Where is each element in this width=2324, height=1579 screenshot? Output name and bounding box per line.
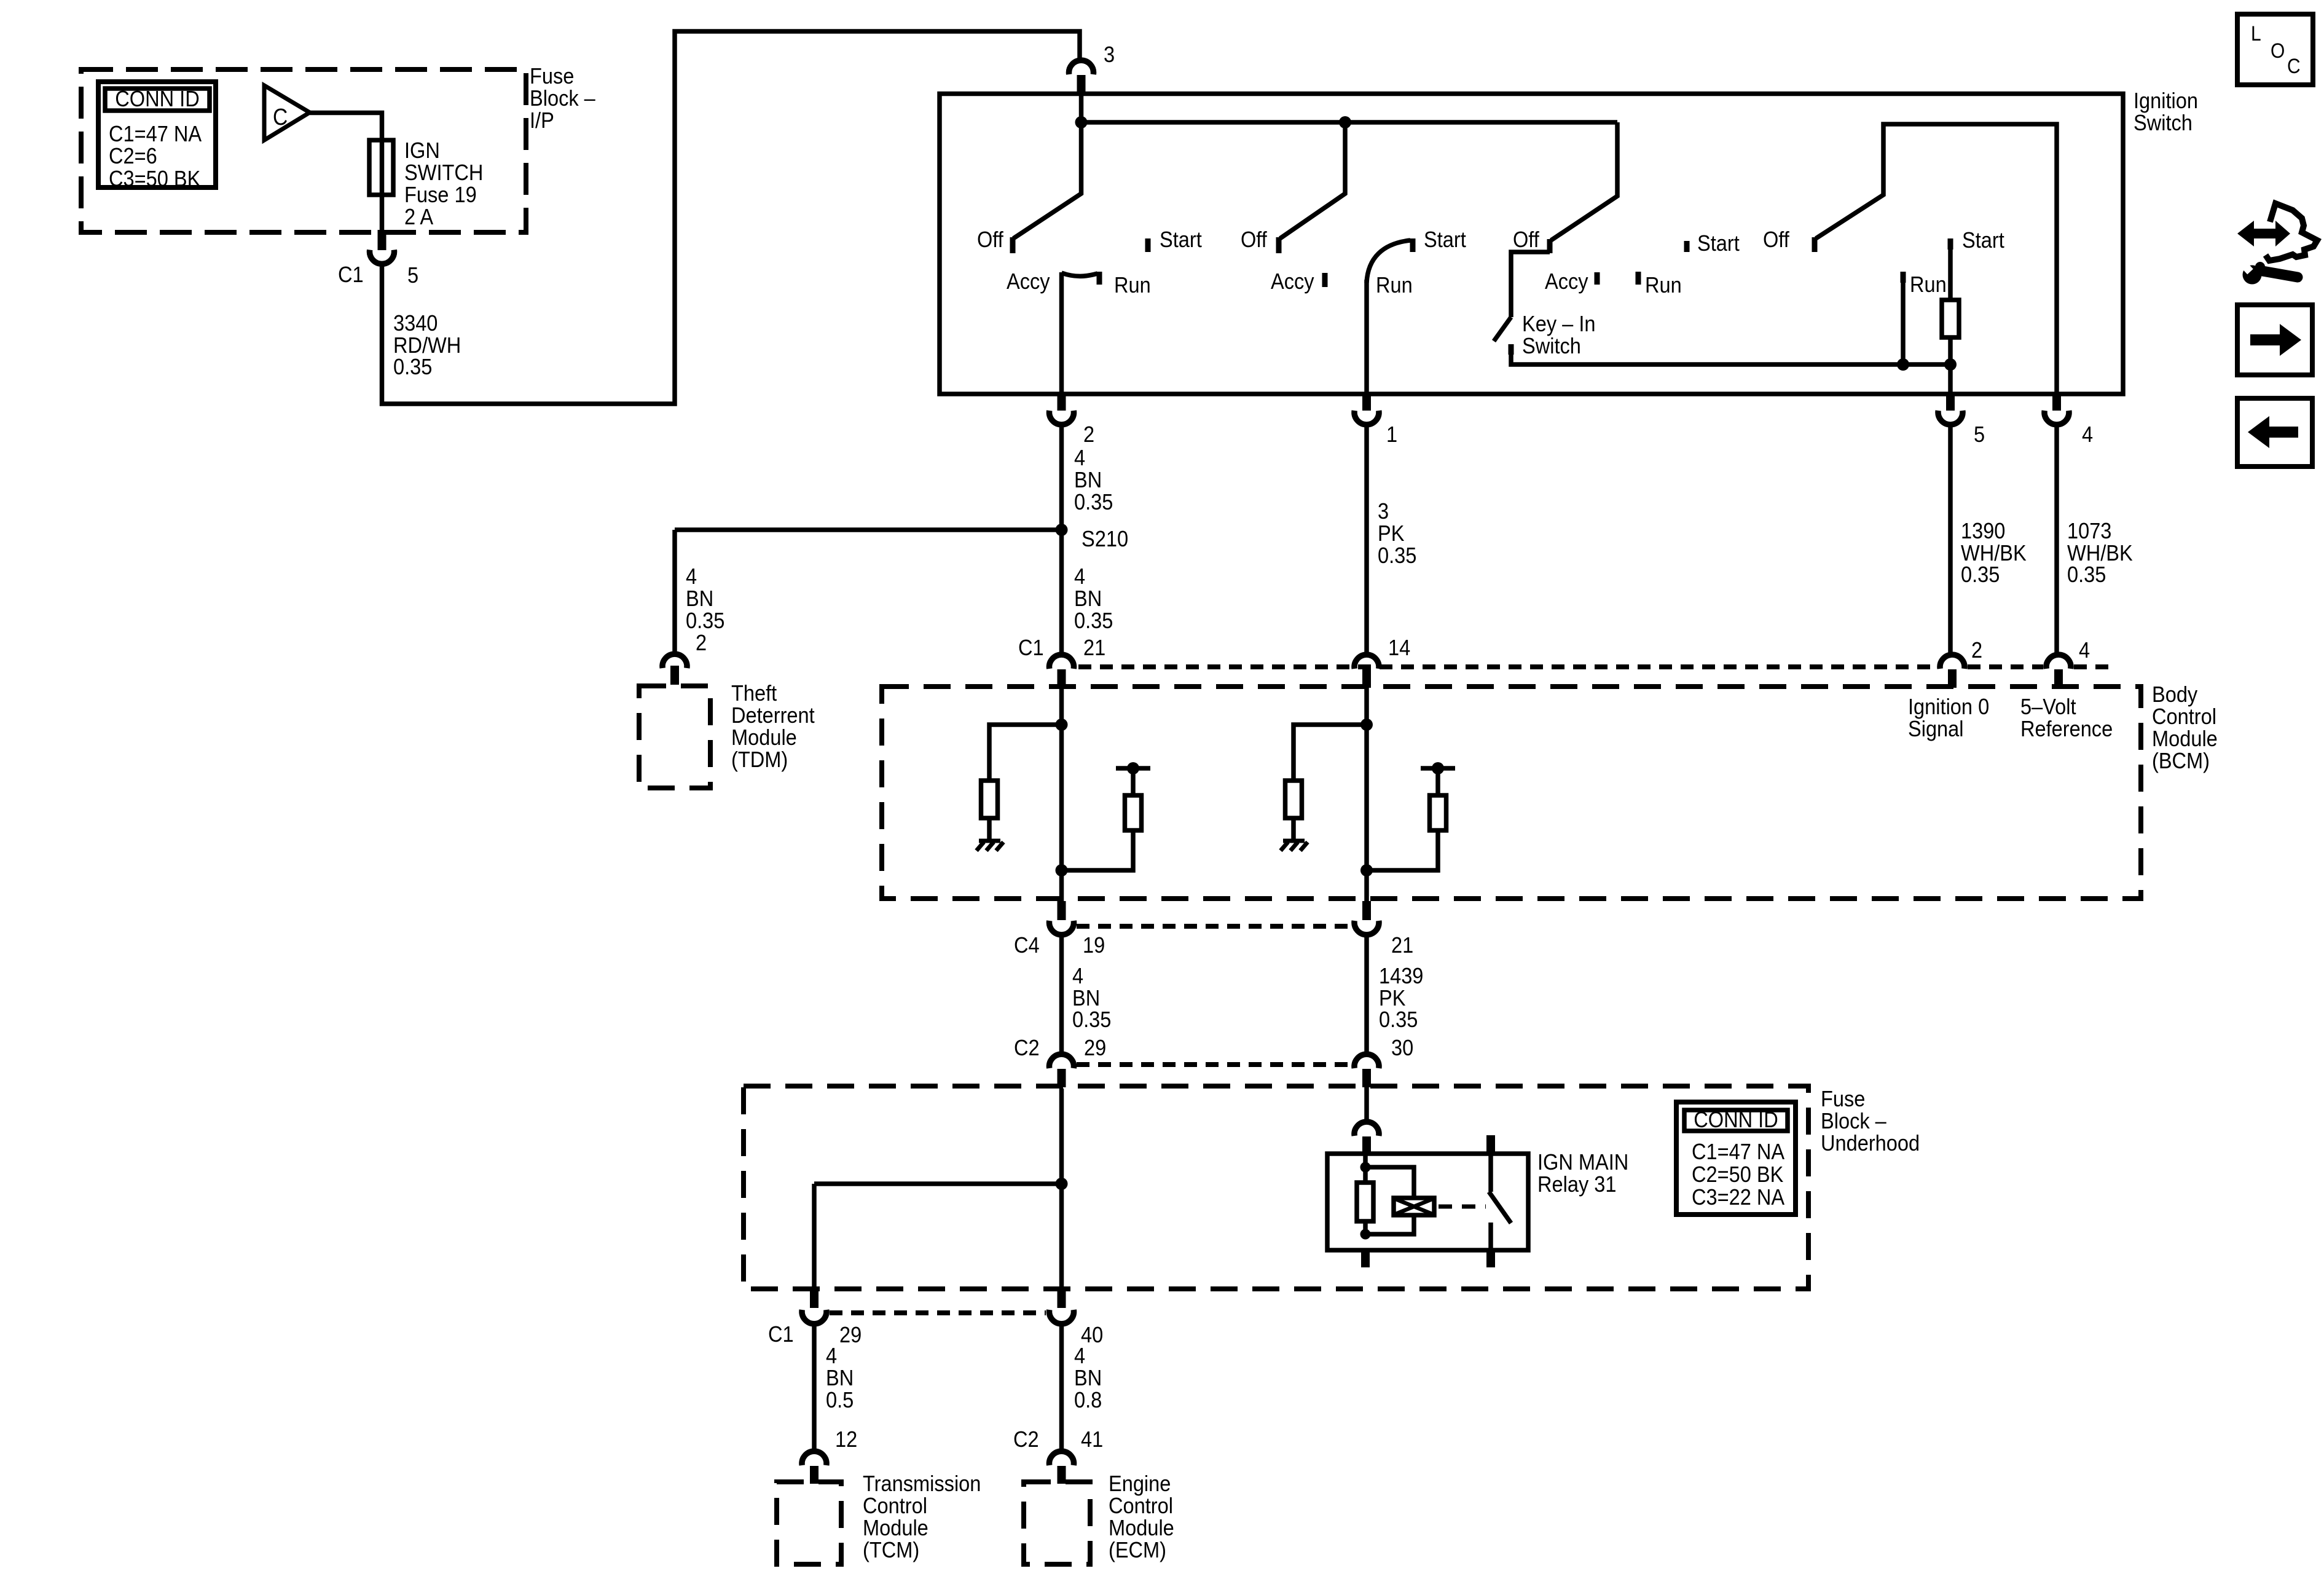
svg-text:Start: Start (1697, 230, 1740, 256)
svg-text:30: 30 (1391, 1035, 1413, 1060)
svg-text:4: 4 (2079, 637, 2090, 663)
svg-text:Switch: Switch (1522, 333, 1581, 358)
svg-text:5: 5 (1974, 422, 1985, 447)
svg-text:Module: Module (1109, 1515, 1174, 1540)
svg-text:29: 29 (839, 1322, 862, 1347)
svg-text:5: 5 (407, 262, 418, 288)
svg-text:4: 4 (1074, 1343, 1085, 1368)
svg-text:0.35: 0.35 (1961, 562, 2000, 587)
svg-text:Module: Module (863, 1515, 928, 1540)
svg-text:Module: Module (731, 725, 797, 750)
svg-text:Signal: Signal (1908, 716, 1964, 741)
svg-text:0.35: 0.35 (393, 354, 432, 379)
svg-text:BN: BN (1074, 1365, 1102, 1390)
svg-text:Module: Module (2152, 726, 2218, 751)
svg-text:Engine: Engine (1109, 1471, 1171, 1496)
svg-text:Control: Control (1109, 1493, 1173, 1518)
svg-text:Off: Off (977, 227, 1004, 252)
svg-text:0.35: 0.35 (686, 608, 724, 633)
svg-text:Underhood: Underhood (1821, 1130, 1920, 1156)
svg-text:(BCM): (BCM) (2152, 748, 2210, 773)
svg-text:Block –: Block – (1821, 1108, 1886, 1133)
svg-text:Run: Run (1114, 272, 1151, 297)
svg-text:Start: Start (1424, 227, 1466, 252)
svg-text:O: O (2271, 39, 2285, 63)
svg-text:BN: BN (1074, 586, 1102, 611)
svg-text:Relay 31: Relay 31 (1537, 1171, 1617, 1197)
svg-text:19: 19 (1083, 932, 1105, 958)
svg-text:Off: Off (1513, 227, 1540, 252)
svg-text:C1=47 NA: C1=47 NA (109, 121, 202, 146)
svg-text:4: 4 (2082, 422, 2093, 447)
svg-text:Body: Body (2152, 682, 2197, 707)
svg-text:Run: Run (1910, 272, 1947, 297)
svg-text:Block –: Block – (530, 85, 595, 111)
svg-text:C3=50 BK: C3=50 BK (109, 166, 200, 191)
svg-text:3: 3 (1104, 42, 1115, 67)
svg-text:Run: Run (1645, 272, 1682, 297)
svg-text:29: 29 (1084, 1035, 1106, 1060)
svg-text:Reference: Reference (2020, 716, 2113, 741)
svg-text:2: 2 (1083, 422, 1094, 447)
svg-text:14: 14 (1388, 635, 1410, 660)
svg-text:2 A: 2 A (404, 204, 433, 229)
svg-text:C: C (273, 104, 288, 130)
svg-text:Key – In: Key – In (1522, 311, 1596, 336)
svg-text:21: 21 (1083, 635, 1105, 660)
svg-text:CONN ID: CONN ID (115, 86, 200, 111)
svg-text:12: 12 (835, 1427, 857, 1452)
svg-text:S210: S210 (1082, 526, 1128, 551)
svg-text:Off: Off (1241, 227, 1268, 252)
svg-text:3: 3 (1378, 498, 1389, 524)
svg-text:Fuse 19: Fuse 19 (404, 182, 477, 207)
svg-text:L: L (2251, 22, 2261, 45)
svg-text:1439: 1439 (1379, 963, 1423, 988)
svg-text:2: 2 (696, 630, 707, 655)
svg-text:4: 4 (1074, 564, 1085, 589)
svg-text:C2=50 BK: C2=50 BK (1692, 1162, 1783, 1187)
svg-text:2: 2 (1971, 637, 1982, 663)
svg-text:PK: PK (1378, 521, 1404, 546)
svg-text:IGN MAIN: IGN MAIN (1537, 1149, 1628, 1175)
svg-text:Start: Start (1962, 227, 2004, 253)
svg-text:0.35: 0.35 (1379, 1007, 1418, 1032)
svg-text:0.5: 0.5 (826, 1387, 854, 1412)
svg-text:41: 41 (1081, 1427, 1103, 1452)
svg-text:C3=22 NA: C3=22 NA (1692, 1184, 1784, 1210)
svg-text:Transmission: Transmission (863, 1471, 981, 1496)
svg-text:C1: C1 (338, 262, 364, 287)
svg-text:Fuse: Fuse (530, 63, 574, 89)
svg-text:Off: Off (1763, 227, 1790, 252)
svg-text:4: 4 (686, 564, 697, 589)
svg-text:Control: Control (863, 1493, 927, 1518)
svg-text:C1=47 NA: C1=47 NA (1692, 1139, 1784, 1164)
svg-text:C1: C1 (1018, 635, 1044, 660)
svg-text:Accy: Accy (1271, 269, 1314, 294)
svg-text:21: 21 (1391, 932, 1413, 958)
svg-text:I/P: I/P (530, 108, 554, 133)
svg-text:Run: Run (1376, 272, 1413, 297)
svg-text:BN: BN (826, 1365, 854, 1390)
svg-text:0.35: 0.35 (2067, 562, 2106, 587)
svg-text:BN: BN (686, 586, 713, 611)
svg-text:SWITCH: SWITCH (404, 160, 483, 185)
svg-text:Deterrent: Deterrent (731, 703, 815, 728)
svg-text:BN: BN (1074, 467, 1102, 492)
svg-text:1390: 1390 (1961, 518, 2005, 543)
svg-text:4: 4 (1072, 963, 1083, 988)
svg-text:0.35: 0.35 (1074, 608, 1113, 633)
svg-text:Theft: Theft (731, 680, 777, 706)
svg-text:C: C (2287, 55, 2301, 78)
svg-text:Ignition: Ignition (2134, 88, 2198, 113)
svg-text:4: 4 (1074, 445, 1085, 470)
svg-text:C4: C4 (1014, 932, 1040, 958)
svg-text:1073: 1073 (2067, 518, 2111, 543)
svg-text:0.35: 0.35 (1072, 1007, 1111, 1032)
svg-text:0.35: 0.35 (1378, 543, 1416, 568)
svg-text:C2: C2 (1014, 1035, 1040, 1060)
svg-text:Control: Control (2152, 704, 2216, 729)
svg-text:(ECM): (ECM) (1109, 1537, 1166, 1562)
svg-text:3340: 3340 (393, 310, 438, 336)
svg-text:Fuse: Fuse (1821, 1086, 1865, 1111)
svg-text:Accy: Accy (1007, 269, 1050, 294)
svg-text:Accy: Accy (1545, 269, 1588, 294)
svg-text:C2: C2 (1013, 1427, 1039, 1452)
svg-text:0.8: 0.8 (1074, 1387, 1102, 1412)
svg-text:C1: C1 (768, 1321, 794, 1347)
svg-text:C2=6: C2=6 (109, 143, 157, 168)
svg-text:Ignition 0: Ignition 0 (1908, 694, 1989, 719)
svg-text:CONN ID: CONN ID (1694, 1107, 1778, 1132)
svg-text:0.35: 0.35 (1074, 489, 1113, 514)
svg-text:(TDM): (TDM) (731, 747, 788, 772)
svg-text:1: 1 (1386, 422, 1397, 447)
svg-text:4: 4 (826, 1343, 837, 1368)
svg-text:Start: Start (1160, 227, 1202, 252)
svg-text:5–Volt: 5–Volt (2020, 694, 2076, 719)
svg-text:Switch: Switch (2134, 110, 2192, 135)
svg-text:IGN: IGN (404, 138, 440, 163)
svg-text:(TCM): (TCM) (863, 1537, 919, 1562)
